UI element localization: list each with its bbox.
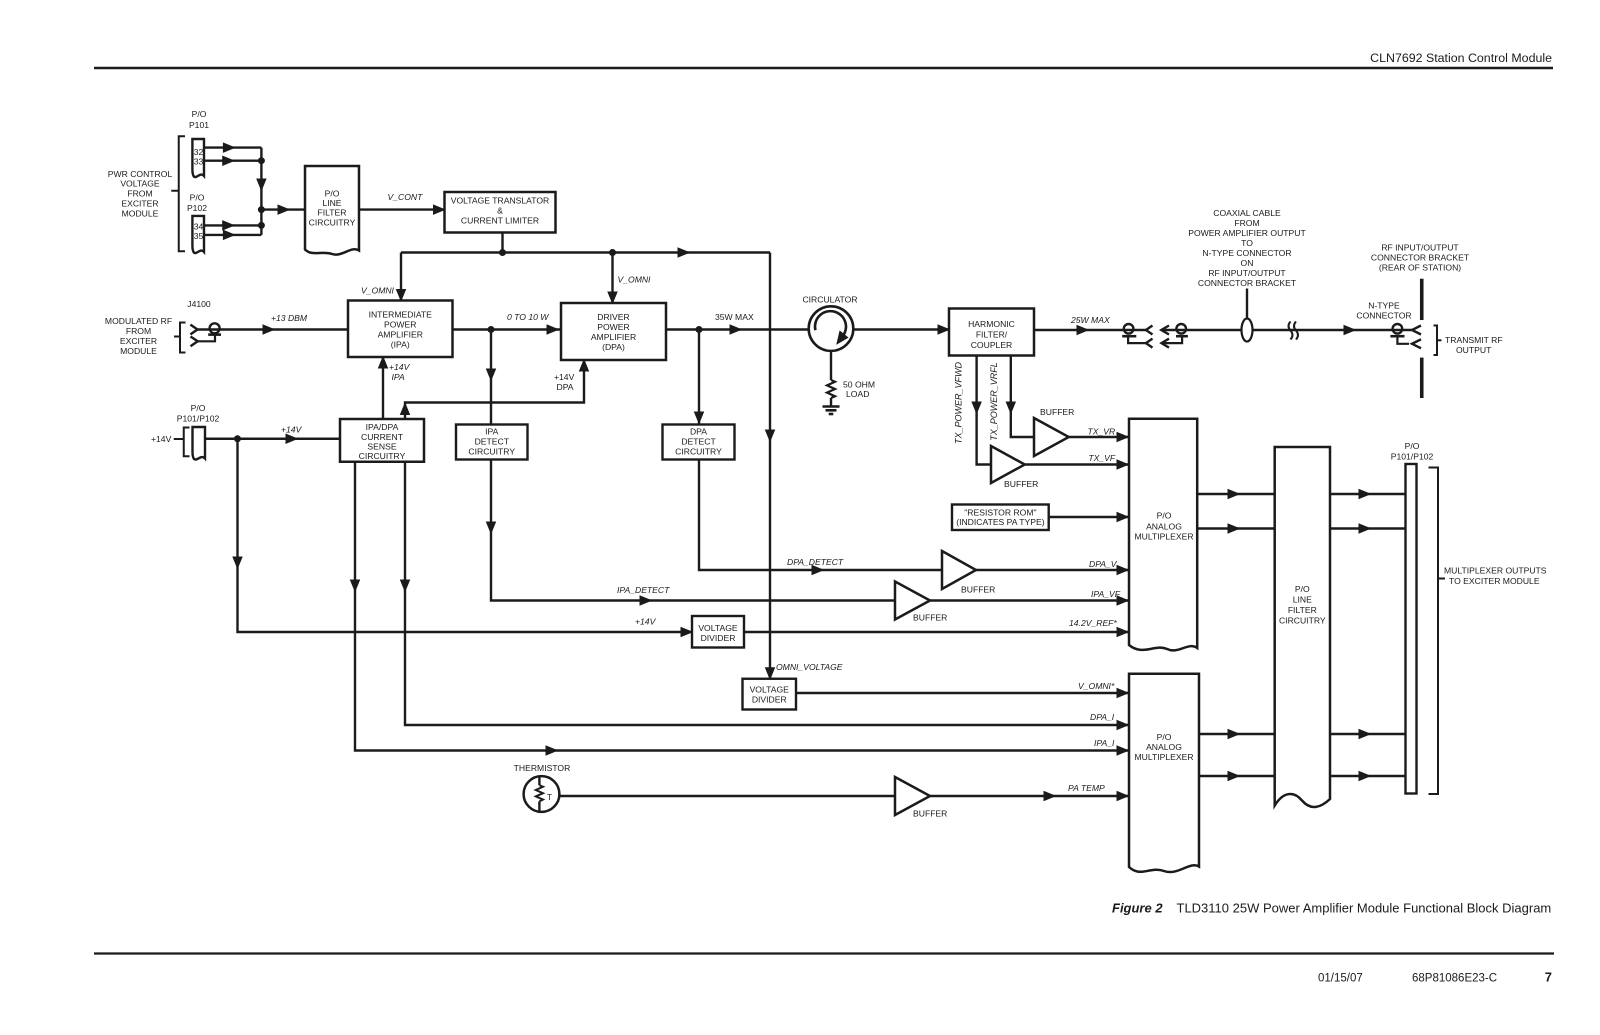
label 25W MAX [1070, 315, 1110, 325]
svg-text:T: T [547, 792, 552, 802]
svg-text:LINE: LINE [1293, 595, 1312, 605]
svg-text:P101/P102: P101/P102 [1391, 452, 1434, 462]
svg-text:POWER: POWER [597, 322, 629, 332]
ground [823, 407, 840, 415]
block INTERMEDIATE POWER AMPLIFIER (IPA) [348, 301, 453, 358]
svg-text:CLN7692 Station Control Module: CLN7692 Station Control Module [1370, 51, 1552, 65]
svg-text:25W MAX: 25W MAX [1070, 315, 1110, 325]
connector P101 body [192, 139, 204, 177]
junction [258, 158, 264, 164]
wire pin35 [205, 230, 261, 239]
wire coax to N-type [1161, 326, 1412, 335]
label DPA_V [1089, 559, 1118, 569]
buffer TX_VF [991, 446, 1038, 489]
svg-text:(DPA): (DPA) [602, 342, 625, 352]
label +14V [635, 617, 657, 627]
footer rule [94, 952, 1554, 954]
wire IPA detect input [487, 330, 496, 425]
label +14V [281, 425, 303, 435]
svg-text:35: 35 [194, 231, 204, 241]
svg-text:+14V: +14V [151, 434, 172, 444]
wire circulator to load [830, 351, 832, 380]
buffer PA TEMP [895, 777, 947, 819]
svg-text:+13 DBM: +13 DBM [271, 313, 308, 323]
footer date [1318, 973, 1363, 985]
block P/O LINE FILTER CIRCUITRY [305, 166, 359, 255]
pin 33 label [194, 157, 204, 167]
label DPA_I [1090, 712, 1115, 722]
wire TX_POWER_VRFL [1006, 356, 1034, 438]
wire DPA_DETECT [699, 460, 942, 575]
wire OMNI_VOLTAGE vertical [766, 253, 775, 679]
junction [696, 327, 702, 333]
svg-text:IPA_VF: IPA_VF [1091, 589, 1121, 599]
label TX_POWER_VRFL [989, 362, 999, 441]
bracket +14V [174, 428, 190, 457]
label MODULATED RF FROM EXCITER MODULE [105, 316, 172, 356]
connector pair mirrored [1161, 324, 1188, 348]
svg-text:CIRCULATOR: CIRCULATOR [802, 295, 857, 305]
wire +14V DPA [401, 360, 589, 419]
wire pin34 [204, 221, 261, 230]
block DPA DETECT CIRCUITRY [663, 425, 735, 460]
label V_OMNI [618, 275, 652, 285]
wire 0 TO 10 W [453, 325, 562, 334]
svg-text:BUFFER: BUFFER [913, 809, 947, 819]
svg-text:HARMONIC: HARMONIC [968, 319, 1015, 329]
buffer IPA_VF [895, 582, 947, 623]
pin 35 label [194, 231, 204, 241]
svg-text:P/O: P/O [1157, 511, 1172, 521]
label PA TEMP [1068, 783, 1105, 793]
svg-text:ANALOG: ANALOG [1146, 521, 1182, 531]
svg-text:DIVIDER: DIVIDER [701, 633, 736, 643]
svg-text:AMPLIFIER: AMPLIFIER [378, 330, 423, 340]
svg-text:MULTIPLEXER: MULTIPLEXER [1134, 532, 1193, 542]
svg-text:MULTIPLEXER OUTPUTS: MULTIPLEXER OUTPUTS [1444, 566, 1547, 576]
label TX_VF [1088, 453, 1115, 463]
svg-text:P/O: P/O [191, 403, 206, 413]
label V_OMNI [361, 286, 395, 296]
coax cable symbol [1242, 289, 1253, 342]
svg-text:MODULE: MODULE [120, 346, 157, 356]
svg-text:EXCITER: EXCITER [120, 336, 157, 346]
wire TX_VF [1025, 460, 1129, 469]
svg-text:VOLTAGE: VOLTAGE [750, 685, 790, 695]
svg-text:TX_POWER_VRFL: TX_POWER_VRFL [989, 362, 999, 441]
svg-text:PA TEMP: PA TEMP [1068, 783, 1105, 793]
connector J4100 label [187, 299, 211, 309]
svg-text:CURRENT: CURRENT [361, 432, 404, 442]
wire filter output 1 [1330, 490, 1406, 499]
wire TX_POWER_VFWD [972, 356, 991, 465]
wire mux2 output 1 [1199, 730, 1275, 739]
connector P101 label [189, 109, 209, 130]
svg-text:TO EXCITER MODULE: TO EXCITER MODULE [1449, 576, 1540, 586]
svg-text:DPA: DPA [690, 427, 707, 437]
svg-text:CIRCUITRY: CIRCUITRY [1279, 616, 1326, 626]
connector P101/P102 body [193, 427, 206, 460]
svg-text:N-TYPE: N-TYPE [1368, 301, 1400, 311]
svg-text:DPA_DETECT: DPA_DETECT [787, 557, 844, 567]
svg-text:(IPA): (IPA) [391, 340, 410, 350]
label +13 DBM [271, 313, 308, 323]
svg-text:IPA: IPA [392, 372, 405, 382]
svg-text:FROM: FROM [1234, 218, 1259, 228]
svg-text:P/O: P/O [1295, 584, 1310, 594]
wire V_CONT [359, 205, 445, 214]
wire IPA_I [351, 462, 1130, 755]
block VOLTAGE DIVIDER [692, 616, 744, 648]
svg-text:PWR CONTROL: PWR CONTROL [108, 169, 173, 179]
svg-text:MODULE: MODULE [122, 208, 159, 218]
block P/O LINE FILTER CIRCUITRY [1275, 447, 1330, 807]
svg-text:TX_VF: TX_VF [1088, 453, 1115, 463]
svg-text:BUFFER: BUFFER [961, 585, 995, 595]
circulator [809, 306, 854, 351]
svg-text:MULTIPLEXER: MULTIPLEXER [1134, 752, 1193, 762]
block DRIVER POWER AMPLIFIER (DPA) [561, 303, 666, 360]
label TX_POWER_VFWD [954, 362, 964, 445]
header rule [94, 67, 1553, 69]
wire IPA_VF [930, 596, 1129, 605]
svg-text:DPA_I: DPA_I [1090, 712, 1115, 722]
wire mux1 output 2 [1197, 524, 1275, 533]
bracket PWR CONTROL [171, 136, 185, 251]
svg-text:(INDICATES PA TYPE): (INDICATES PA TYPE) [956, 517, 1044, 527]
pin 34 label [194, 221, 204, 231]
wire +13 DBM [198, 325, 349, 334]
wire resistor rom to mux [1049, 513, 1129, 522]
junction [258, 207, 264, 213]
svg-text:P/O: P/O [325, 188, 340, 198]
svg-text:CIRCUITRY: CIRCUITRY [359, 451, 406, 461]
label TRANSMIT RF OUTPUT [1445, 335, 1503, 355]
svg-text:+14V: +14V [554, 372, 575, 382]
label CIRCULATOR [802, 295, 857, 305]
svg-text:SENSE: SENSE [367, 442, 396, 452]
label 35W MAX [715, 312, 754, 322]
svg-text:BUFFER: BUFFER [1004, 479, 1038, 489]
label +14V DPA [554, 372, 575, 392]
bracket wall RF connector [1420, 279, 1424, 398]
label +14V [151, 434, 172, 444]
connector P102 body [192, 216, 204, 253]
wire filter output 2 [1330, 524, 1406, 533]
svg-text:V_OMNI*: V_OMNI* [1078, 681, 1115, 691]
bracket TRANSMIT RF OUTPUT [1434, 326, 1442, 356]
svg-text:32: 32 [194, 147, 204, 157]
svg-text:CIRCUITRY: CIRCUITRY [675, 447, 722, 457]
wire mux1 output 1 [1197, 490, 1275, 499]
block IPA/DPA CURRENT SENSE CIRCUITRY [340, 419, 424, 462]
label IPA_VF [1091, 589, 1121, 599]
connector P101/P102 body [1406, 464, 1417, 794]
svg-text:CONNECTOR BRACKET: CONNECTOR BRACKET [1371, 253, 1470, 263]
wire to line filter [261, 205, 305, 214]
pin 32 label [194, 147, 204, 157]
svg-text:J4100: J4100 [187, 299, 211, 309]
svg-text:TX_POWER_VFWD: TX_POWER_VFWD [954, 362, 964, 445]
svg-text:FILTER: FILTER [1288, 605, 1317, 615]
svg-text:CIRCUITRY: CIRCUITRY [309, 217, 356, 227]
junction [610, 250, 616, 256]
wire V_OMNI distribution [401, 248, 770, 257]
junction [488, 327, 494, 333]
svg-text:(REAR OF STATION): (REAR OF STATION) [1379, 263, 1461, 273]
svg-text:IPA/DPA: IPA/DPA [366, 422, 399, 432]
svg-text:VOLTAGE: VOLTAGE [698, 623, 738, 633]
wire 25W MAX [1034, 326, 1146, 335]
svg-text:THERMISTOR: THERMISTOR [514, 763, 571, 773]
bracket modulated rf [174, 323, 186, 353]
svg-text:CONNECTOR: CONNECTOR [1356, 311, 1411, 321]
buffer DPA_V [942, 551, 995, 595]
svg-text:DETECT: DETECT [681, 437, 716, 447]
svg-text:COUPLER: COUPLER [971, 340, 1013, 350]
svg-text:DPA: DPA [557, 382, 574, 392]
connector P101/P102 label [1391, 441, 1434, 462]
label COAXIAL CABLE FROM POWER AMPLIFIER OUTPUT TO N-TYPE CONNECTOR ON RF INPUT/OUTPUT CONNECTOR BRACKET [1188, 208, 1306, 288]
wire 35W MAX [666, 325, 810, 334]
label IPA_I [1094, 738, 1115, 748]
svg-text:CIRCUITRY: CIRCUITRY [468, 447, 515, 457]
svg-text:0 TO 10 W: 0 TO 10 W [507, 312, 549, 322]
block HARMONIC FILTER/COUPLER [949, 309, 1034, 356]
svg-text:LINE: LINE [322, 198, 341, 208]
label V_CONT [388, 192, 424, 202]
wire translator drop [501, 233, 503, 253]
svg-text:OMNI_VOLTAGE: OMNI_VOLTAGE [776, 662, 843, 672]
connector P101/P102 label [177, 403, 220, 424]
junction [258, 222, 264, 228]
label IPA_DETECT [617, 585, 670, 595]
svg-text:33: 33 [194, 157, 204, 167]
svg-text:+14V: +14V [389, 362, 411, 372]
svg-text:ON: ON [1241, 258, 1254, 268]
wire TX_VR [1069, 433, 1129, 442]
block P/O ANALOG MULTIPLEXER [1129, 419, 1197, 651]
svg-text:+14V: +14V [635, 617, 657, 627]
svg-text:DPA_V: DPA_V [1089, 559, 1118, 569]
wire filter output 3 [1330, 730, 1406, 739]
wire 14.2V_REF [744, 628, 1129, 637]
svg-text:V_OMNI: V_OMNI [618, 275, 652, 285]
wire V_OMNI to DPA [608, 253, 617, 304]
label OMNI_VOLTAGE [776, 662, 843, 672]
footer page number [1545, 970, 1552, 985]
cable break symbol [1289, 322, 1299, 340]
svg-text:RF INPUT/OUTPUT: RF INPUT/OUTPUT [1381, 243, 1459, 253]
svg-text:68P81086E23-C: 68P81086E23-C [1412, 973, 1497, 985]
svg-text:POWER AMPLIFIER OUTPUT: POWER AMPLIFIER OUTPUT [1188, 228, 1306, 238]
svg-text:TO: TO [1241, 238, 1253, 248]
wire mux2 output 2 [1199, 772, 1275, 781]
svg-text:50 OHM: 50 OHM [843, 380, 875, 390]
wire DPA detect input [695, 330, 704, 425]
svg-text:TLD3110 25W Power Amplifier Mo: TLD3110 25W Power Amplifier Module Funct… [1177, 901, 1552, 916]
svg-text:CURRENT LIMITER: CURRENT LIMITER [461, 216, 539, 226]
label 50 OHM LOAD [843, 380, 875, 400]
svg-text:+14V: +14V [281, 425, 303, 435]
wire +14V to voltage divider [233, 439, 692, 637]
header text [1370, 51, 1552, 65]
svg-text:BUFFER: BUFFER [913, 613, 947, 623]
svg-text:01/15/07: 01/15/07 [1318, 973, 1363, 985]
block IPA DETECT CIRCUITRY [456, 425, 528, 460]
svg-text:P101/P102: P101/P102 [177, 414, 220, 424]
wire V_OMNI to IPA [397, 253, 406, 301]
wire pin33 [204, 156, 261, 165]
svg-text:MODULATED RF: MODULATED RF [105, 316, 172, 326]
svg-text:POWER: POWER [384, 320, 416, 330]
svg-text:IPA_DETECT: IPA_DETECT [617, 585, 670, 595]
svg-text:CONNECTOR BRACKET: CONNECTOR BRACKET [1198, 278, 1297, 288]
svg-text:P/O: P/O [1157, 732, 1172, 742]
wire pin32 [204, 143, 261, 152]
buffer TX_VR [1034, 407, 1074, 456]
wire filter output 4 [1330, 772, 1406, 781]
footer part number [1412, 973, 1497, 985]
thermistor [524, 776, 560, 812]
svg-text:P/O: P/O [192, 109, 207, 119]
label THERMISTOR [514, 763, 571, 773]
svg-text:&: & [497, 206, 503, 216]
svg-text:EXCITER: EXCITER [121, 198, 158, 208]
svg-text:P/O: P/O [1405, 441, 1420, 451]
svg-text:P101: P101 [189, 120, 209, 130]
svg-text:V_OMNI: V_OMNI [361, 286, 395, 296]
svg-text:P/O: P/O [190, 192, 205, 202]
wire +14V to current sense [205, 434, 340, 443]
svg-text:FROM: FROM [127, 188, 152, 198]
connector N-type [1390, 324, 1421, 348]
svg-text:14.2V_REF*: 14.2V_REF* [1069, 618, 1117, 628]
label 14.2V_REF* [1069, 618, 1117, 628]
wire +14V IPA [379, 357, 388, 419]
label PWR CONTROL VOLTAGE FROM EXCITER MODULE [108, 169, 173, 218]
label DPA_DETECT [787, 557, 844, 567]
connector J4100 pins [190, 323, 221, 346]
svg-text:AMPLIFIER: AMPLIFIER [591, 332, 636, 342]
block VOLTAGE TRANSLATOR & CURRENT LIMITER [445, 192, 556, 233]
wire bus vertical [257, 148, 266, 235]
svg-text:P102: P102 [187, 203, 207, 213]
bracket MULTIPLEXER OUTPUTS [1429, 468, 1446, 795]
svg-text:RF INPUT/OUTPUT: RF INPUT/OUTPUT [1208, 268, 1286, 278]
svg-text:N-TYPE CONNECTOR: N-TYPE CONNECTOR [1202, 248, 1291, 258]
svg-text:TRANSMIT RF: TRANSMIT RF [1445, 335, 1503, 345]
junction [235, 436, 241, 442]
label MULTIPLEXER OUTPUTS TO EXCITER MODULE [1444, 566, 1547, 587]
svg-text:IPA_I: IPA_I [1094, 738, 1115, 748]
svg-text:BUFFER: BUFFER [1040, 407, 1074, 417]
wire IPA_DETECT [487, 460, 896, 606]
label RF INPUT/OUTPUT CONNECTOR BRACKET (REAR OF STATION) [1371, 243, 1470, 273]
svg-text:IPA: IPA [485, 427, 498, 437]
wire circulator to harmonic filter [853, 325, 950, 334]
label N-TYPE CONNECTOR [1356, 301, 1411, 321]
svg-text:ANALOG: ANALOG [1146, 742, 1182, 752]
svg-text:DETECT: DETECT [475, 437, 510, 447]
wire DPA_I [401, 462, 1130, 730]
svg-text:VOLTAGE: VOLTAGE [120, 179, 160, 189]
svg-text:FILTER/: FILTER/ [976, 330, 1008, 340]
label V_OMNI* [1078, 681, 1115, 691]
svg-text:LOAD: LOAD [846, 389, 869, 399]
block VOLTAGE DIVIDER [743, 679, 797, 710]
svg-text:COAXIAL CABLE: COAXIAL CABLE [1213, 208, 1281, 218]
wire DPA_V [976, 566, 1129, 575]
svg-text:VOLTAGE TRANSLATOR: VOLTAGE TRANSLATOR [451, 196, 550, 206]
svg-text:V_CONT: V_CONT [388, 192, 424, 202]
resistor 50 OHM LOAD [827, 380, 835, 406]
junction [500, 250, 506, 256]
svg-text:OUTPUT: OUTPUT [1456, 345, 1492, 355]
block P/O ANALOG MULTIPLEXER [1129, 674, 1199, 872]
label TX_VR [1088, 427, 1116, 437]
block RESISTOR ROM [952, 505, 1049, 531]
svg-text:FILTER: FILTER [318, 208, 347, 218]
svg-text:"RESISTOR ROM": "RESISTOR ROM" [964, 507, 1036, 517]
label 0 TO 10 W [507, 312, 549, 322]
svg-text:Figure 2: Figure 2 [1112, 901, 1163, 916]
label +14V IPA [389, 362, 411, 382]
svg-text:35W MAX: 35W MAX [715, 312, 754, 322]
wire V_OMNI* [796, 689, 1129, 698]
connector P102 label [187, 192, 207, 212]
wire PA TEMP [559, 795, 895, 797]
svg-text:DIVIDER: DIVIDER [752, 695, 787, 705]
svg-text:7: 7 [1545, 970, 1552, 985]
wire PA TEMP to mux [930, 792, 1129, 801]
figure caption [1112, 901, 1551, 916]
svg-text:TX_VR: TX_VR [1088, 427, 1116, 437]
connector pair [1122, 324, 1152, 348]
svg-text:DRIVER: DRIVER [597, 312, 629, 322]
svg-text:INTERMEDIATE: INTERMEDIATE [369, 310, 433, 320]
svg-text:FROM: FROM [126, 326, 151, 336]
